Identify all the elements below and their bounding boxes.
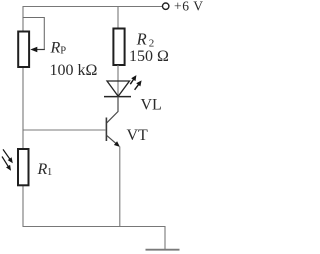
- resistor R2 body: [113, 29, 124, 66]
- svg-text:VL: VL: [141, 97, 162, 114]
- ground: [146, 249, 180, 251]
- wire R2 to LED: [117, 65, 119, 97]
- wire ground drop: [164, 226, 166, 250]
- wire R2 feed: [117, 7, 119, 29]
- svg-text:VT: VT: [127, 127, 149, 144]
- terminal +6V: [163, 3, 169, 9]
- transistor VT collector: [107, 97, 118, 123]
- svg-text:R: R: [50, 40, 61, 57]
- LED emission arrow 1: [130, 75, 136, 84]
- svg-text:R: R: [37, 161, 48, 178]
- transistor VT base bar: [105, 118, 107, 142]
- LED emission arrow 2: [135, 80, 142, 89]
- transistor VT emitter: [107, 136, 120, 227]
- svg-text:100 kΩ: 100 kΩ: [50, 62, 98, 79]
- wire top rail: [23, 6, 163, 8]
- wire left vertical: [22, 7, 24, 227]
- wire wiper vertical: [43, 17, 45, 50]
- wire wiper link horizontal: [23, 17, 45, 19]
- LED VL cathode bar: [104, 96, 131, 98]
- wire base: [23, 129, 106, 131]
- potentiometer RP body: [18, 32, 29, 68]
- svg-text:1: 1: [47, 167, 52, 178]
- wire bottom rail: [23, 226, 166, 228]
- svg-text:P: P: [60, 46, 66, 57]
- R1 light arrow 2: [2, 157, 11, 171]
- svg-text:R: R: [136, 29, 147, 48]
- wiper arm of RP: [37, 49, 45, 51]
- photoresistor R1 body: [18, 149, 29, 185]
- R1 light arrow 1: [3, 149, 13, 163]
- LED VL triangle: [107, 81, 130, 96]
- svg-text:150 Ω: 150 Ω: [129, 48, 169, 65]
- svg-text:+6 V: +6 V: [174, 0, 204, 14]
